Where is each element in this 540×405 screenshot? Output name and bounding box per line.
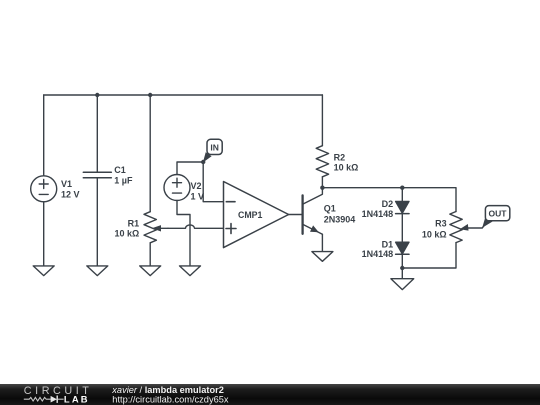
node junction top rail / R1 xyxy=(148,93,152,97)
svg-text:10 kΩ: 10 kΩ xyxy=(334,163,359,173)
svg-text:C1: C1 xyxy=(114,165,126,175)
wire C1 top lead xyxy=(96,95,98,172)
svg-text:1 µF: 1 µF xyxy=(114,176,133,186)
wire V2 plus to node xyxy=(177,162,203,175)
label D2 value 1N4148 xyxy=(362,199,394,219)
wire V2 minus to ground xyxy=(177,201,190,266)
svg-text:V1: V1 xyxy=(61,179,72,189)
ground (V1) xyxy=(33,266,54,276)
voltage source V1 xyxy=(31,176,57,202)
wire C1 bottom lead xyxy=(96,178,98,266)
diode D1 xyxy=(396,242,409,254)
ground (output) xyxy=(391,279,414,290)
CircuitLab logo xyxy=(24,385,93,404)
svg-text:D2: D2 xyxy=(382,199,394,209)
wire node to comparator minus input xyxy=(203,162,223,202)
R3 wiper arrow xyxy=(460,223,487,231)
wire V1 top lead xyxy=(43,95,45,176)
wire Q1 emitter to ground xyxy=(321,234,323,251)
svg-text:R1: R1 xyxy=(128,219,140,229)
wire R1 top lead xyxy=(149,95,151,212)
potentiometer R1 xyxy=(144,212,156,243)
node junction D2 xyxy=(400,186,404,190)
flag IN xyxy=(203,139,222,162)
capacitor C1 xyxy=(83,172,111,177)
svg-text:xavier / lambda emulator2: xavier / lambda emulator2 xyxy=(111,385,224,395)
svg-text:OUT: OUT xyxy=(489,209,508,219)
diode D2 xyxy=(396,188,409,214)
node junction collector xyxy=(320,186,324,190)
svg-text:R2: R2 xyxy=(334,153,346,163)
resistor R2 xyxy=(316,146,328,177)
flag OUT xyxy=(482,206,510,228)
svg-text:http://circuitlab.com/czdy65x: http://circuitlab.com/czdy65x xyxy=(112,395,229,405)
label V1 value 12 V xyxy=(61,179,80,200)
svg-text:1N4148: 1N4148 xyxy=(362,249,394,259)
footer title text xyxy=(111,385,229,405)
label R3 value 10 kOhm xyxy=(422,219,447,240)
label C1 value 1 uF xyxy=(114,165,133,185)
label R1 value 10 kOhm xyxy=(114,219,139,239)
wire R2 bottom lead xyxy=(321,177,323,188)
wire R2 top lead xyxy=(321,95,323,146)
label D1 value 1N4148 xyxy=(362,239,394,259)
ground (Q1 emitter) xyxy=(312,252,333,262)
ground (R1) xyxy=(140,266,161,276)
svg-text:R3: R3 xyxy=(435,219,447,229)
wire D1 bottom lead xyxy=(401,254,403,268)
svg-text:IN: IN xyxy=(210,142,219,152)
label Q1 value 2N3904 xyxy=(324,204,356,225)
wire D2 to D1 xyxy=(401,214,403,243)
svg-text:Q1: Q1 xyxy=(324,204,336,214)
node junction IN xyxy=(201,160,205,164)
ground (V2) xyxy=(180,266,201,276)
svg-text:1N4148: 1N4148 xyxy=(362,209,394,219)
svg-text:2N3904: 2N3904 xyxy=(324,215,356,225)
R1 wiper arrow xyxy=(152,225,168,231)
svg-text:LAB: LAB xyxy=(64,393,90,404)
label V2 value 1 V xyxy=(191,181,205,202)
wire R1 bottom lead xyxy=(149,243,151,266)
svg-text:10 kΩ: 10 kΩ xyxy=(422,229,447,239)
svg-text:1 V: 1 V xyxy=(191,191,205,201)
svg-text:10 kΩ: 10 kΩ xyxy=(114,229,139,239)
transistor Q1 xyxy=(303,188,323,235)
wire top rail xyxy=(44,94,323,96)
node junction top rail / C1 xyxy=(95,93,99,97)
svg-text:V2: V2 xyxy=(191,181,202,191)
ground (C1) xyxy=(87,266,108,276)
svg-text:CMP1: CMP1 xyxy=(238,210,263,220)
voltage source V2 xyxy=(164,175,190,201)
wire bottom rail to R3 xyxy=(402,243,456,268)
label R2 value 10 kOhm xyxy=(334,153,359,173)
op-amp comparator CMP1 xyxy=(224,182,289,248)
wire bottom node to ground xyxy=(401,268,403,279)
svg-text:12 V: 12 V xyxy=(61,189,80,199)
node junction bottom xyxy=(400,266,404,270)
wire collector rail to R3 xyxy=(322,188,456,212)
wire CMP1 output to Q1 base xyxy=(289,214,302,216)
wire R1 wiper to comparator plus input xyxy=(168,225,224,228)
footer bar xyxy=(0,384,540,405)
svg-text:D1: D1 xyxy=(382,239,394,249)
wire V1 bottom lead xyxy=(43,202,45,266)
potentiometer R3 xyxy=(450,212,462,243)
